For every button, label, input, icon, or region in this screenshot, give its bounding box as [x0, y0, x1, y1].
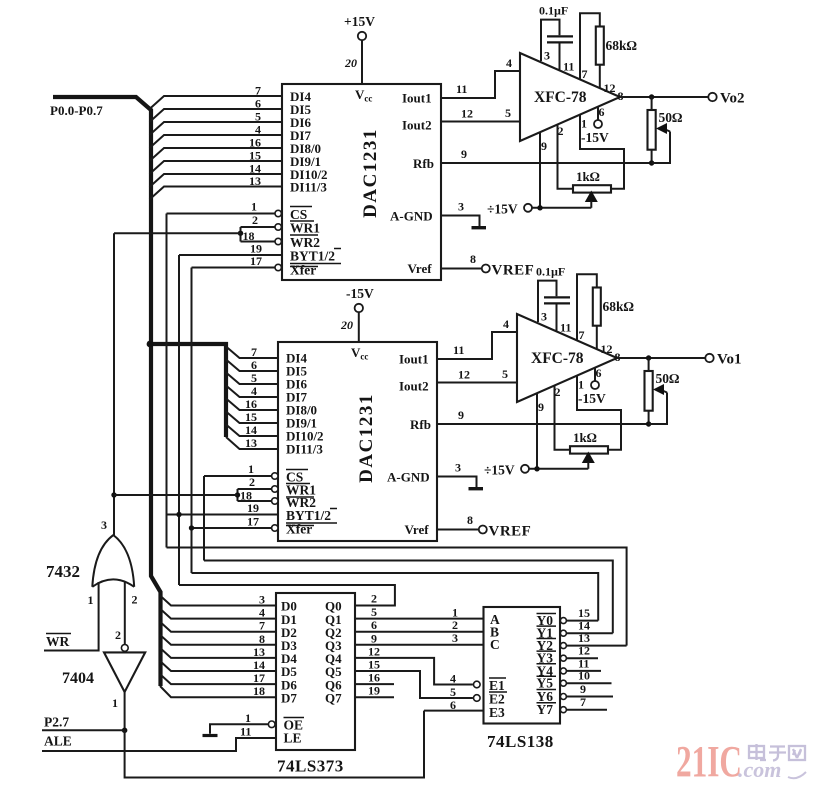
- svg-text:4: 4: [259, 606, 265, 620]
- svg-text:-15V: -15V: [581, 130, 609, 145]
- inverter 7404: [62, 628, 145, 710]
- op-amp U2 XFC-78: [520, 53, 620, 141]
- svg-text:DAC1231: DAC1231: [356, 393, 377, 483]
- wire P2.7 net to E3 bottom rail: [125, 711, 424, 778]
- wire D5 pin14: [160, 658, 276, 672]
- svg-text:VREF: VREF: [492, 263, 535, 279]
- svg-text:14: 14: [245, 423, 257, 437]
- wire WR net vertical to OR gate: [111, 233, 116, 535]
- wire Rfb pin9: [441, 147, 652, 163]
- capacitor 0.1uF on pin3/pin11: [539, 4, 573, 70]
- svg-text:7404: 7404: [62, 670, 94, 687]
- DAC U1 WR1 pin2: [241, 213, 321, 236]
- svg-text:17: 17: [253, 671, 265, 685]
- svg-text:18: 18: [253, 684, 265, 698]
- svg-text:3: 3: [259, 593, 265, 607]
- svg-text:68kΩ: 68kΩ: [606, 38, 638, 53]
- svg-text:5: 5: [450, 685, 456, 699]
- wire D2 pin7: [160, 619, 276, 633]
- wire Q7 pin19 stub: [355, 684, 394, 698]
- wire OR input2 from 7404: [124, 581, 126, 644]
- wire D1 pin4: [160, 606, 276, 620]
- decoder E3 pin6: [424, 698, 505, 720]
- svg-text:7: 7: [251, 345, 257, 359]
- DAC pin name labels right side: [390, 91, 434, 277]
- svg-text:7432: 7432: [46, 562, 80, 581]
- svg-text:P2.7: P2.7: [44, 715, 69, 730]
- latch D/Q pin labels: [281, 599, 342, 706]
- svg-text:C: C: [490, 637, 500, 652]
- wire CS1 net H1 to Y2: [167, 548, 627, 646]
- svg-text:LE: LE: [284, 731, 302, 746]
- wire DAC2 WR1-WR2 tie: [114, 489, 240, 501]
- svg-text:15: 15: [245, 410, 257, 424]
- svg-text:20: 20: [344, 56, 357, 70]
- DAC U1 DAC1231 body: [282, 84, 441, 280]
- DAC U3 CS pin1: [204, 462, 310, 485]
- svg-text:D7: D7: [281, 690, 297, 705]
- svg-text:12: 12: [368, 644, 380, 658]
- DAC U1 BYT1/2 pin19: [179, 242, 341, 264]
- svg-text:12: 12: [604, 81, 616, 95]
- svg-text:14: 14: [253, 658, 265, 672]
- wire D0 pin3: [160, 593, 276, 607]
- svg-text:A-GND: A-GND: [390, 209, 433, 224]
- svg-text:DAC1231: DAC1231: [360, 128, 381, 218]
- wire Iout2 pin12 to op-amp pin5: [441, 106, 520, 122]
- svg-text:5: 5: [255, 110, 261, 124]
- svg-text:4: 4: [506, 56, 512, 70]
- svg-text:7: 7: [580, 695, 586, 709]
- svg-text:3: 3: [101, 518, 107, 532]
- svg-text:7: 7: [582, 67, 588, 81]
- svg-text:9: 9: [580, 682, 586, 696]
- svg-text:15: 15: [368, 658, 380, 672]
- svg-text:1: 1: [581, 117, 587, 131]
- svg-text:5: 5: [251, 371, 257, 385]
- potentiometer 50 ohm: [648, 97, 684, 166]
- wire DI5 pin6: [150, 97, 283, 123]
- svg-text:2: 2: [452, 618, 458, 632]
- bus P0.0-P0.7: [53, 97, 226, 686]
- svg-text:8: 8: [259, 632, 265, 646]
- latch LE pin11: [240, 725, 302, 746]
- wire D3 pin8: [160, 632, 276, 646]
- svg-text:19: 19: [247, 501, 259, 515]
- op-amp channel 2 (XFC-78 lower): [387, 265, 714, 540]
- decoder Y0 pin15: [537, 606, 599, 628]
- decoder E1 pin4: [450, 672, 507, 694]
- wire D6 pin17: [160, 671, 276, 685]
- svg-text:6: 6: [450, 698, 456, 712]
- wire Q3 pin9 to 138 C: [355, 631, 484, 645]
- svg-text:15: 15: [249, 149, 261, 163]
- wire D4 pin13: [160, 645, 276, 659]
- svg-text:1: 1: [112, 696, 118, 710]
- wire Vref pin8 to VREF terminal: [441, 252, 534, 279]
- svg-text:Rfb: Rfb: [413, 156, 434, 171]
- wire op-amp output pin8: [620, 93, 717, 101]
- svg-text:ALE: ALE: [44, 734, 72, 749]
- svg-text:2: 2: [249, 475, 255, 489]
- svg-text:11: 11: [563, 60, 574, 74]
- svg-text:16: 16: [245, 397, 257, 411]
- wire DI4 pin7: [150, 84, 283, 110]
- svg-text:12: 12: [461, 107, 473, 121]
- svg-text:2: 2: [371, 592, 377, 606]
- wire op-amp pin2 to pot: [558, 125, 574, 189]
- svg-text:7: 7: [259, 619, 265, 633]
- wire ALE to LE: [42, 738, 276, 751]
- wire DAC2 DI6 pin5: [226, 371, 278, 385]
- svg-text:1: 1: [251, 200, 257, 214]
- wire DAC2 DI7 pin4: [226, 384, 278, 398]
- svg-text:8: 8: [470, 252, 476, 266]
- DAC U1 WR2 pin18: [241, 229, 321, 250]
- DAC U1 data pin labels: [290, 89, 328, 195]
- svg-text:6: 6: [371, 618, 377, 632]
- label WR: [46, 634, 71, 650]
- svg-text:11: 11: [240, 725, 251, 739]
- svg-text:13: 13: [249, 174, 261, 188]
- decoder Y2 pin13: [537, 631, 627, 653]
- svg-text:Q7: Q7: [325, 690, 342, 705]
- DAC U3 Xfer pin17: [189, 515, 314, 537]
- decoder Y3 pin12: [537, 644, 599, 666]
- svg-text:4: 4: [255, 123, 261, 137]
- wire DI8/0 pin16: [150, 136, 283, 162]
- svg-text:P0.0-P0.7: P0.0-P0.7: [50, 103, 103, 118]
- wire P2.7: [42, 729, 125, 731]
- svg-text:Vcc: Vcc: [351, 345, 368, 362]
- wire op-amp pin9 to +15V rail: [539, 132, 541, 208]
- svg-text:74LS373: 74LS373: [277, 757, 344, 776]
- DAC U3 WR2 pin18: [238, 489, 317, 511]
- wire D7 pin18: [160, 684, 276, 698]
- svg-text:16: 16: [368, 671, 380, 685]
- wire op-amp pin1 loop to pot: [580, 115, 624, 189]
- svg-text:BYT1/2: BYT1/2: [290, 249, 335, 264]
- DAC U1 CS pin1: [167, 200, 315, 223]
- svg-text:1: 1: [245, 711, 251, 725]
- wire DAC2 DI9/1 pin15: [226, 410, 278, 424]
- svg-text:2: 2: [132, 593, 138, 607]
- power -15V terminal op-amp pin6: [581, 107, 609, 145]
- svg-text:+15V: +15V: [344, 14, 375, 29]
- DAC U3 BYT1/2 pin19: [167, 501, 338, 523]
- wire Q5 pin15 to E2: [355, 658, 473, 699]
- wire A-GND pin3: [441, 200, 480, 227]
- svg-text:9: 9: [371, 631, 377, 645]
- svg-text:Vcc: Vcc: [355, 87, 372, 104]
- decoder Y5 pin10: [537, 669, 612, 691]
- svg-text:9: 9: [541, 139, 547, 153]
- svg-text:Vo1: Vo1: [717, 352, 741, 368]
- svg-text:16: 16: [249, 136, 261, 150]
- svg-text:9: 9: [461, 147, 467, 161]
- resistor 68k ohm pin7/pin12: [580, 13, 638, 88]
- wire DI10/2 pin14: [150, 162, 283, 188]
- svg-text:0.1µF: 0.1µF: [539, 4, 568, 18]
- wire Q0 pin2 to BYT net: [179, 585, 395, 606]
- svg-text:-15V: -15V: [346, 286, 374, 301]
- svg-text:2: 2: [252, 213, 258, 227]
- wire Iout1 pin11 to op-amp pin4: [441, 56, 520, 98]
- wire DAC2 DI4 pin7: [226, 345, 278, 359]
- svg-text:WR1: WR1: [290, 221, 320, 236]
- wire Y1 net vertical V4: [203, 476, 205, 561]
- svg-text:3: 3: [544, 49, 550, 63]
- svg-text:5: 5: [371, 605, 377, 619]
- DAC U3 WR1 pin2: [238, 475, 317, 498]
- wire DI7 pin4: [150, 123, 283, 149]
- svg-text:3: 3: [452, 631, 458, 645]
- svg-text:Vo2: Vo2: [720, 91, 744, 107]
- wire DI6 pin5: [150, 110, 283, 136]
- svg-text:6: 6: [255, 97, 261, 111]
- svg-text:.com: .com: [738, 757, 781, 782]
- wire Xfer net H3 to Y0: [192, 573, 599, 621]
- svg-text:WR: WR: [46, 634, 70, 649]
- decoder Y4 pin11: [537, 656, 602, 678]
- decoder A B C pin labels: [452, 606, 500, 653]
- svg-text:Xfer: Xfer: [286, 522, 312, 537]
- wire Q1 pin5 to 138 A: [355, 605, 484, 619]
- wire Xfer net vertical V3: [191, 268, 193, 574]
- svg-text:4: 4: [251, 384, 257, 398]
- wire Q2 pin6 to 138 B: [355, 618, 484, 632]
- svg-text:50Ω: 50Ω: [659, 110, 684, 125]
- svg-text:11: 11: [456, 82, 467, 96]
- svg-text:13: 13: [253, 645, 265, 659]
- svg-text:17: 17: [250, 254, 262, 268]
- svg-text:74LS138: 74LS138: [487, 732, 554, 751]
- svg-text:17: 17: [247, 515, 259, 529]
- op-amp channel group (XFC-78 with feedback network): [390, 4, 717, 279]
- op-amp pin number labels: [541, 49, 624, 154]
- decoder U5 74LS138 body: [484, 607, 561, 751]
- wire CS2 net H2 to Y1: [204, 561, 613, 634]
- wire DAC2 DI10/2 pin14: [226, 423, 278, 437]
- DAC U3 data pin labels: [286, 351, 324, 457]
- svg-text:DI11/3: DI11/3: [286, 442, 323, 457]
- svg-text:6: 6: [251, 358, 257, 372]
- svg-text:4: 4: [450, 672, 456, 686]
- svg-text:Iout1: Iout1: [402, 91, 432, 106]
- svg-text:13: 13: [245, 436, 257, 450]
- power +15V terminal (DAC1 Vcc): [344, 14, 375, 84]
- ground A-GND symbol: [472, 226, 487, 229]
- svg-text:6: 6: [599, 105, 605, 119]
- wire Q4 pin12 to E1: [355, 644, 473, 684]
- wire DI11/3 pin13: [150, 174, 283, 200]
- svg-text:2: 2: [115, 628, 121, 642]
- wire 7404 input to P2.7: [122, 692, 128, 733]
- svg-text:÷15V: ÷15V: [487, 202, 518, 217]
- svg-text:3: 3: [458, 200, 464, 214]
- wire DAC2 DI5 pin6: [226, 358, 278, 372]
- wire DI9/1 pin15: [150, 149, 283, 175]
- wire OR input1 from WR: [44, 582, 99, 651]
- OR gate 7432: [46, 518, 138, 607]
- svg-text:10: 10: [578, 669, 590, 683]
- svg-text:XFC-78: XFC-78: [534, 89, 587, 106]
- wire BYT net vertical V2: [178, 255, 180, 585]
- svg-text:Xfer: Xfer: [290, 263, 316, 278]
- potentiometer 1k ohm: [573, 169, 611, 208]
- power +15V terminal rail: [487, 202, 591, 217]
- svg-text:1: 1: [88, 593, 94, 607]
- svg-text:7: 7: [255, 84, 261, 98]
- svg-text:E3: E3: [489, 705, 505, 720]
- decoder Y7 pin7: [537, 695, 608, 717]
- wire Q6 pin16 stub: [355, 671, 394, 685]
- latch U4 74LS373 body: [276, 593, 355, 776]
- svg-text:Y7: Y7: [537, 702, 554, 717]
- latch OE pin1 with ground: [203, 711, 305, 736]
- svg-text:DI11/3: DI11/3: [290, 180, 327, 195]
- watermark CJK glyphs: [749, 744, 805, 761]
- wire DAC2 DI11/3 pin13: [226, 436, 278, 450]
- svg-text:19: 19: [368, 684, 380, 698]
- power -15V terminal (DAC2 Vcc): [340, 286, 374, 342]
- svg-text:21IC: 21IC: [676, 737, 742, 786]
- decoder Y1 pin14: [537, 619, 613, 641]
- svg-text:Vref: Vref: [408, 261, 433, 276]
- svg-text:5: 5: [505, 106, 511, 120]
- wire CS net vertical V1: [166, 214, 168, 548]
- svg-text:Iout2: Iout2: [402, 118, 432, 133]
- DAC U3 DAC1231 body: [278, 342, 437, 541]
- decoder Y6 pin9: [537, 682, 614, 704]
- svg-text:20: 20: [340, 318, 353, 332]
- wire DAC2 DI8/0 pin16: [226, 397, 278, 411]
- DAC U1 Xfer pin17: [192, 254, 319, 278]
- decoder E2 pin5: [450, 685, 505, 707]
- wire WR1-WR2 tie: [114, 227, 243, 242]
- svg-text:1: 1: [248, 462, 254, 476]
- svg-text:1kΩ: 1kΩ: [576, 169, 600, 184]
